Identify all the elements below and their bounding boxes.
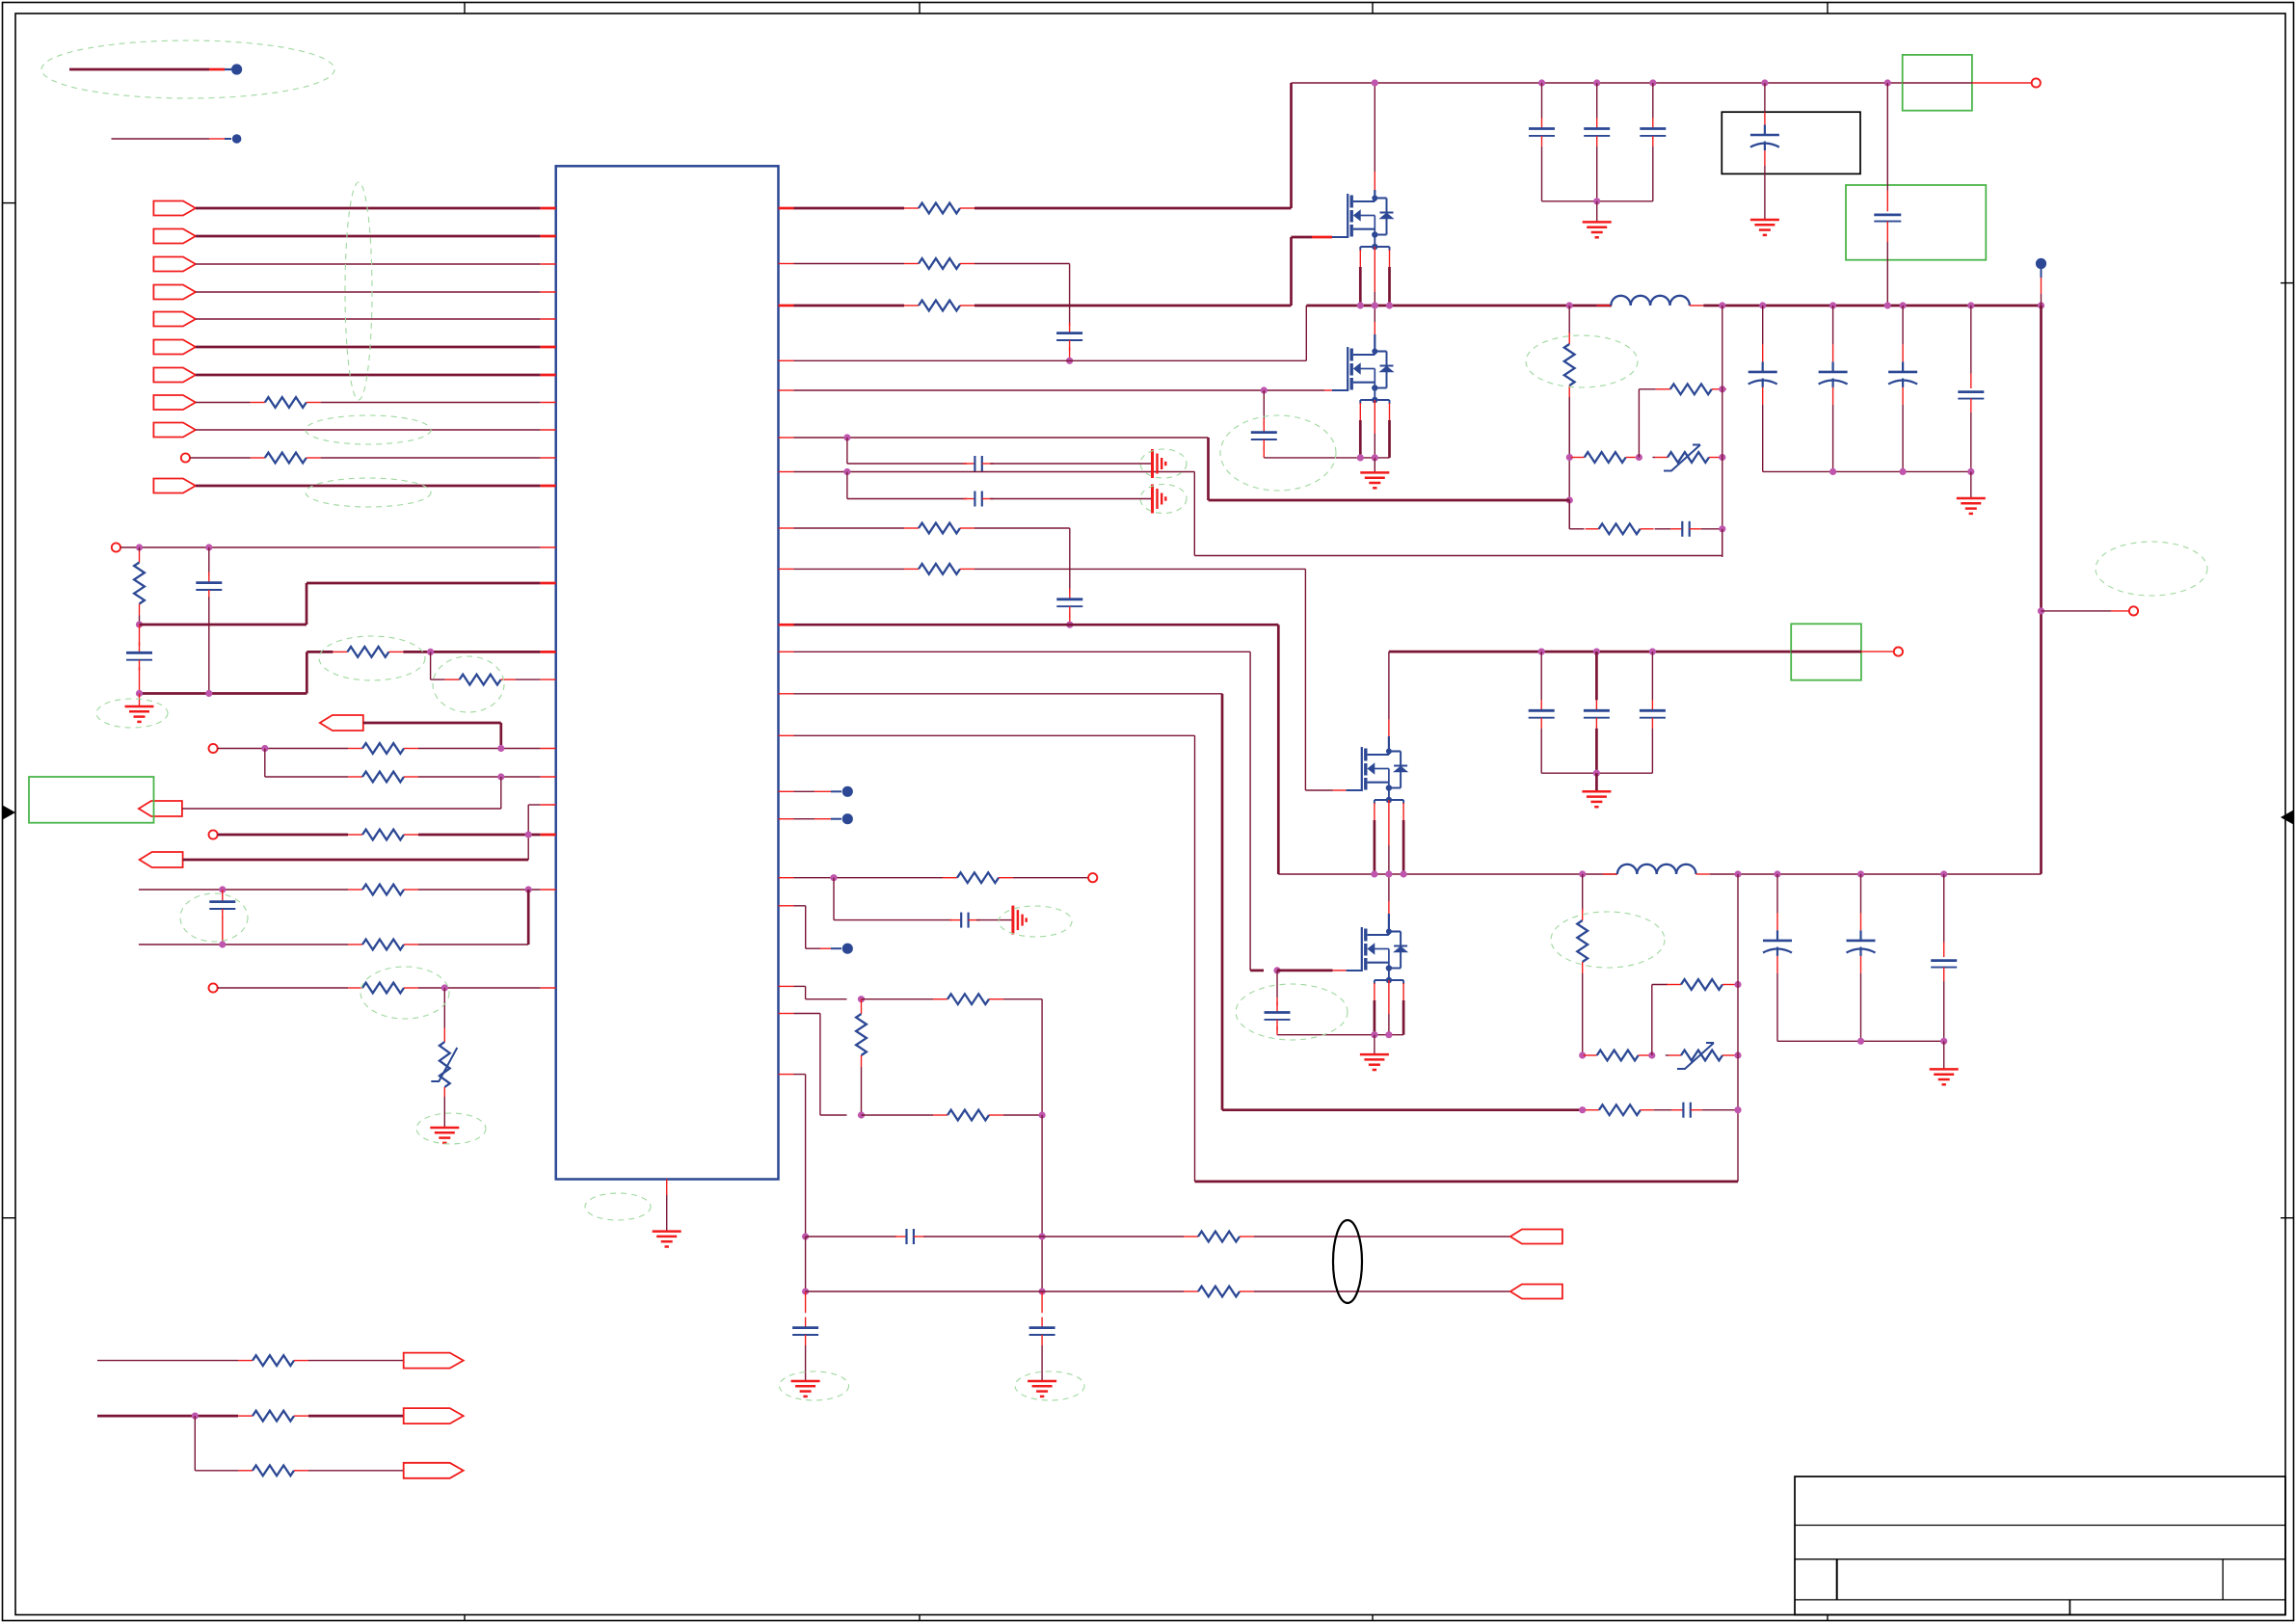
dashed ellipse around GND12 bbox=[1015, 1371, 1084, 1400]
wire resistor R14 to IC pin bbox=[516, 678, 541, 680]
wire right bus x2117.5 bbox=[2040, 306, 2042, 874]
junction node B2 bbox=[497, 745, 504, 752]
wire x835.6 leg down bbox=[805, 1237, 807, 1291]
dashed ellipse around R20 bbox=[360, 967, 449, 1019]
port P5 bbox=[153, 312, 196, 327]
wire lower row 719.5 bbox=[140, 692, 307, 695]
resistor R31 (FB2 top, vertical) bbox=[1582, 874, 1584, 911]
wire node K2 row to resistor R37 bbox=[862, 1114, 934, 1116]
wire port P11 to IC pin bbox=[196, 485, 541, 488]
port P13 (arrow) bbox=[320, 715, 363, 731]
wire input bank return bus 2 bbox=[1541, 772, 1652, 774]
wire Q2 drain to SW rail bbox=[1374, 306, 1375, 322]
wire row 548.8: corner from x1628 bbox=[1568, 500, 1570, 529]
port P3 bbox=[153, 257, 196, 272]
dashed ellipse around R31 bbox=[1551, 912, 1665, 968]
resistor R21 bbox=[904, 207, 919, 209]
ground GND9 bbox=[1943, 1041, 1945, 1069]
wire row 866 bbox=[218, 834, 348, 837]
wire row 1025 bbox=[218, 987, 348, 989]
legend net dot 1 bbox=[231, 64, 242, 74]
resistor R28 bbox=[904, 527, 919, 529]
junction node A3 bbox=[136, 621, 143, 627]
port P9 bbox=[153, 423, 196, 438]
ground GND1 bbox=[139, 694, 141, 707]
port P12 (circle pin) bbox=[112, 543, 120, 551]
junction node E2 bbox=[1566, 496, 1573, 503]
green box GB2 bbox=[1846, 185, 1986, 260]
junction node D5 bbox=[1593, 198, 1600, 204]
wire resistor R16 to IC pin bbox=[418, 776, 541, 778]
wire input bank return bus bbox=[1542, 200, 1653, 202]
wire IC ground pin bbox=[666, 1180, 668, 1196]
capacitor C17 bbox=[1596, 83, 1598, 119]
capacitor C14 (boot1) bbox=[1069, 323, 1071, 333]
junction node A5 bbox=[205, 690, 212, 697]
wire Q3 drain to VIN2 rail bbox=[1388, 652, 1390, 719]
ground GND6 bbox=[1970, 471, 1972, 498]
dashed ellipse near P20 bbox=[2096, 542, 2207, 596]
wire port P5 to IC pin bbox=[196, 318, 541, 320]
wire ISEN row 517.5 (cap + side ground) bbox=[846, 472, 848, 499]
wire port P10 to IC bbox=[190, 457, 251, 459]
wire IC pin 835 corner bbox=[528, 804, 541, 806]
resistor R30 bbox=[943, 877, 957, 879]
resistor R32 bbox=[1584, 1054, 1597, 1056]
junction node K5 bbox=[802, 1288, 809, 1294]
wire IC pin 1051.5 to row 1157 bbox=[779, 1013, 794, 1015]
capacitor C31 (out2, polarized) bbox=[1776, 874, 1778, 913]
green box GB1 bbox=[1903, 55, 1972, 111]
frame tick marks top edge bbox=[464, 3, 466, 14]
junction node A2 bbox=[205, 544, 212, 550]
net stub ND4 (blue dot) bbox=[779, 905, 794, 907]
wire SW1 rail bbox=[1306, 305, 1612, 307]
wire row 980 from left bbox=[139, 944, 348, 945]
capacitor C33 (out2) bbox=[1943, 874, 1945, 943]
capacitor C29 bbox=[1595, 652, 1598, 700]
junction node J5 bbox=[1579, 1106, 1586, 1113]
junction node E6 bbox=[1719, 525, 1725, 532]
port P6 bbox=[153, 340, 196, 355]
wire IC pin LG2 row 676.3 bbox=[779, 651, 794, 652]
resistor R18 bbox=[348, 889, 362, 891]
capacitor C12a (on x216.8 leg) bbox=[208, 547, 210, 575]
frame centre arrow left bbox=[3, 806, 15, 819]
wire R41 to flag bbox=[308, 1415, 404, 1418]
wire port P1 to IC pin bbox=[196, 207, 541, 210]
dashed ellipse around R13 bbox=[319, 636, 425, 680]
port P7 bbox=[153, 368, 196, 383]
wire port P8 to resistor bbox=[196, 402, 251, 404]
port P15 (arrow) bbox=[139, 801, 182, 816]
capacitor C15 (Q2 gate-source) bbox=[1263, 390, 1265, 418]
dashed ellipse around R14 bbox=[433, 656, 504, 712]
wire IC pin BOOT2 to resistor bbox=[779, 527, 794, 529]
wire port P7 to IC pin bbox=[196, 374, 541, 377]
wire IC pin 1023.4 to comp row bbox=[779, 985, 794, 987]
legend wire 1 bbox=[69, 68, 209, 71]
capacitor C12b (on x144.5 leg) bbox=[139, 625, 141, 646]
junction node K4 bbox=[802, 1233, 809, 1239]
transistor Q2 (low-side) bbox=[1347, 347, 1348, 391]
wire Q2 return rail bbox=[1361, 457, 1390, 459]
wire x1628 FB1 divider leg bbox=[1568, 397, 1570, 529]
wire S1 to flag port bbox=[1254, 1236, 1510, 1237]
resistor R38 bbox=[1184, 1236, 1198, 1237]
resistor R40 bbox=[238, 1360, 253, 1362]
wire R27 to capacitor C24 bbox=[1655, 528, 1671, 530]
side ground SG1 bbox=[1151, 449, 1154, 478]
wire node F1 to port bbox=[2042, 610, 2112, 612]
wire x1803 FB2 right leg bbox=[1737, 874, 1739, 1110]
resistor R33 bbox=[1667, 984, 1681, 986]
junction nodes on VIN2 rail bbox=[1538, 649, 1545, 655]
wire VIN1 rail bbox=[1292, 82, 1904, 84]
port P16 (circle pin) bbox=[209, 830, 218, 838]
resistor R13 bbox=[333, 651, 347, 652]
resistor R23 bbox=[904, 305, 919, 306]
wire R34 to capacitor C34 bbox=[1654, 1109, 1672, 1111]
ground GND11 bbox=[791, 1380, 820, 1383]
net stub ND3 (blue dot) bbox=[779, 818, 794, 820]
wire resistor R17 to IC pin bbox=[418, 834, 541, 837]
junction node A6 bbox=[427, 649, 434, 655]
net stub ND2 (blue dot) bbox=[779, 790, 794, 792]
flag port P26 bbox=[404, 1408, 464, 1423]
inductor L1 bbox=[1596, 305, 1611, 306]
capacitor C32 (out2, polarized) bbox=[1860, 874, 1862, 913]
capacitor C16 bbox=[1541, 83, 1543, 119]
resistor R8 bbox=[251, 402, 265, 404]
junction nodes on SW1/VOUT1 rail bbox=[1357, 302, 1364, 308]
wire Q4 source split to return rail bbox=[1374, 983, 1375, 1000]
resistor R36 (vertical) bbox=[861, 999, 863, 1002]
wire corner x1253.5 to node E2 bbox=[1207, 438, 1210, 500]
frame tick marks right edge bbox=[2281, 282, 2294, 284]
junction node K7 bbox=[1039, 1288, 1046, 1294]
wire IC pin HG1 to resistor bbox=[779, 305, 794, 307]
wire resistor R8 to IC pin bbox=[321, 402, 541, 404]
junction node B1 bbox=[261, 745, 268, 752]
wire Q3 source split to SW2 rail bbox=[1374, 803, 1375, 820]
capacitor C18 bbox=[1652, 83, 1654, 119]
junction node J3 bbox=[1734, 1051, 1741, 1058]
resistor R27 bbox=[1586, 528, 1599, 530]
wire resistor R20 to IC pin bbox=[418, 987, 541, 989]
resistor R35 bbox=[933, 998, 948, 1000]
junction node B5 bbox=[219, 886, 226, 892]
wire x1700 riser bbox=[1638, 389, 1640, 458]
wire resistor R10 to IC pin bbox=[321, 457, 541, 459]
junction node E7 bbox=[843, 468, 850, 475]
wire Q4 return rail bbox=[1277, 1034, 1403, 1036]
junction node E4 bbox=[1719, 454, 1725, 461]
junction node A1 bbox=[136, 544, 143, 550]
dashed ellipse around C27 bbox=[1236, 984, 1348, 1040]
resistor R20 bbox=[348, 987, 362, 989]
wire VOUT2 rail bbox=[1710, 873, 2042, 875]
junction node D3 bbox=[1357, 454, 1364, 461]
capacitor C35 bbox=[805, 1291, 807, 1313]
resistor R22 bbox=[904, 263, 919, 265]
wire resistor R21 to VIN riser bbox=[974, 207, 1292, 210]
port P17 (arrow) bbox=[140, 852, 183, 867]
junction node B6 bbox=[525, 886, 532, 892]
wire R35 to corner x1081.1 bbox=[1003, 998, 1042, 1000]
junction node D4 bbox=[1372, 454, 1378, 461]
wire IC pin VIN to resistor bbox=[779, 207, 794, 210]
capacitor C26 bbox=[949, 919, 961, 921]
wire sense row S1 bbox=[806, 1236, 896, 1237]
dashed ellipse around SG3 bbox=[999, 906, 1072, 937]
transistor Q1 (high-side) bbox=[1347, 194, 1348, 238]
ground GND7 bbox=[1374, 1035, 1375, 1054]
wire IC pin 1114.6 to sense leg bbox=[779, 1074, 794, 1076]
junction node B3 bbox=[497, 773, 504, 780]
wire port P15 to node B3 bbox=[182, 808, 501, 810]
resistor R19 bbox=[348, 944, 362, 945]
capacitor C24 bbox=[1670, 528, 1682, 530]
junction node E3 bbox=[1636, 454, 1642, 461]
wire row 676.4 to resistor bbox=[307, 651, 333, 653]
junction node D2 bbox=[1261, 386, 1268, 393]
wire resistor R30 to port bbox=[1013, 877, 1088, 879]
dashed ellipse around SG1 bbox=[1140, 449, 1187, 478]
wire Q2 source split to return rail bbox=[1359, 403, 1361, 420]
port P4 bbox=[153, 285, 196, 300]
junction node H4 bbox=[1593, 770, 1600, 777]
junction node K6 bbox=[1039, 1233, 1046, 1239]
controller IC U1 bbox=[556, 166, 779, 1179]
side ground SG3 bbox=[1011, 906, 1014, 935]
wire port P13 to riser bbox=[363, 722, 501, 725]
wire IC pin VSEN2 row 763.3 bbox=[779, 734, 794, 736]
junction node H3 (Q4 gate) bbox=[1273, 967, 1280, 973]
wire VIN2 rail into GB3 and port bbox=[1791, 651, 1861, 653]
black box BB1 bbox=[1722, 112, 1860, 173]
frame centre arrow right bbox=[2282, 811, 2294, 824]
wire VIN1 rail into GB1 and port bbox=[1903, 82, 1972, 84]
dashed ellipse left of GND10 bbox=[585, 1193, 651, 1220]
wire IC pin SW1 row bbox=[779, 359, 794, 361]
inductor L2 bbox=[1603, 873, 1617, 875]
junction node J4 bbox=[1734, 981, 1741, 988]
wire FB1 bottom row to riser x1239.3 bbox=[1194, 555, 1722, 557]
wire C34 to node J6 bbox=[1702, 1109, 1738, 1111]
dashed ellipse around GND2 bbox=[416, 1113, 486, 1144]
port P1 bbox=[153, 201, 196, 216]
wire row 474.5 left segment + resistor R25 bbox=[1571, 457, 1585, 459]
wire row 1469.1 bbox=[97, 1415, 238, 1418]
resistor R12 (vertical) bbox=[139, 547, 141, 551]
junction node F1 bbox=[2038, 607, 2044, 614]
rheostat RV3 bbox=[1669, 1054, 1681, 1056]
capacitor C22 (out, polarized) bbox=[1902, 306, 1904, 344]
cable loop marker bbox=[1333, 1220, 1362, 1303]
wire ISEN row 481 (cap + side ground) bbox=[846, 438, 848, 464]
wire Q1 source split to SW rail bbox=[1359, 250, 1361, 267]
green box GB4 bbox=[29, 777, 154, 823]
dashed ellipse around C15 bbox=[1220, 415, 1336, 491]
wire sense row S2 bbox=[806, 1290, 1184, 1292]
wire riser x318.3 to row 676.4 bbox=[306, 652, 308, 693]
wire IC pin 454 row to corner x1253.5 bbox=[779, 437, 794, 439]
dashed ellipse around C13 bbox=[180, 893, 248, 942]
wire row 776.5 bbox=[218, 748, 348, 750]
wire x1786.8 FB1 right leg bbox=[1722, 306, 1723, 557]
wire row 1411.6 bbox=[97, 1360, 238, 1362]
junction node D1 bbox=[1066, 358, 1073, 364]
capacitor C30 bbox=[1651, 652, 1653, 700]
junction nodes on return bus 2 bbox=[1857, 1038, 1864, 1045]
ground GND2 bbox=[430, 1127, 459, 1130]
wire IC pin LG1 to gate2 bbox=[779, 389, 794, 391]
junction node K1 bbox=[858, 996, 865, 1002]
wire x1713.8 riser bbox=[1651, 985, 1653, 1056]
wire riser x1239.3 to IC pin FB1 bbox=[1193, 472, 1195, 556]
wire port P3 to IC pin bbox=[196, 263, 541, 265]
wire C24 to node E6 bbox=[1701, 528, 1722, 530]
wire resistor R15 to IC pin bbox=[418, 748, 541, 750]
wire HG1 riser and gate lead bbox=[1290, 237, 1293, 306]
capacitor C36 bbox=[1041, 1291, 1043, 1313]
junction node H2 bbox=[1385, 1031, 1392, 1038]
junction node G1 bbox=[830, 874, 837, 881]
port P22 (circle pin VIN2) bbox=[1894, 648, 1903, 656]
capacitor C23 (out) bbox=[1970, 306, 1972, 374]
rheostat RV2 bbox=[1655, 457, 1668, 459]
resistor R15 bbox=[348, 748, 362, 750]
junction node B8 bbox=[441, 984, 448, 991]
port P18 (circle pin) bbox=[209, 983, 218, 992]
legend net dot 2 bbox=[232, 134, 242, 144]
port P11 bbox=[153, 479, 196, 493]
wire R37 to node K3 bbox=[1003, 1114, 1042, 1116]
dashed ellipse row11 bbox=[306, 478, 431, 507]
flag port P23 bbox=[1510, 1230, 1562, 1244]
junction nodes on return bus 1 bbox=[1829, 468, 1836, 475]
wire port P9 to IC pin bbox=[196, 429, 541, 431]
wire node G1 down to cap row 954.6 bbox=[833, 878, 835, 920]
varistor RV1 (vertical) bbox=[443, 988, 445, 1028]
wire port P12 to IC pin bbox=[120, 546, 541, 548]
dashed ellipse around SG2 bbox=[1140, 485, 1187, 514]
junction nodes on SW2/VOUT2 rail bbox=[1371, 870, 1377, 877]
wire VOUT1 rail bbox=[1703, 305, 2041, 307]
ground GND8 bbox=[1595, 773, 1598, 791]
wire node A6 down to row 705.1 bbox=[430, 652, 432, 679]
junction node B4 bbox=[525, 831, 532, 838]
port P8 bbox=[153, 395, 196, 410]
dashed ellipse around GND1 bbox=[96, 699, 168, 728]
wire node L1 down to row 1525.8 bbox=[194, 1416, 196, 1471]
wire S2 to flag port bbox=[1254, 1290, 1510, 1292]
title block bbox=[1795, 1477, 2285, 1615]
resistor R42 bbox=[238, 1470, 253, 1472]
side ground SG2 bbox=[1151, 485, 1154, 514]
wire resistor R13 to IC pin bbox=[403, 651, 540, 653]
wire R42 to flag bbox=[308, 1470, 404, 1472]
junction node H1 bbox=[1371, 1031, 1377, 1038]
ground GND5 bbox=[1750, 219, 1779, 222]
capacitor C20 (in GB2) bbox=[1886, 83, 1888, 191]
junction node J6 bbox=[1734, 1106, 1741, 1113]
wire resistor R23 to gate riser bbox=[974, 305, 1292, 307]
wire node K1 row to resistor R35 bbox=[862, 998, 934, 1000]
resistor R14 bbox=[445, 678, 460, 680]
wire resistor R19 corner to riser bbox=[418, 944, 528, 945]
wire port P4 to IC pin bbox=[196, 291, 541, 293]
net stub ND1 (blue dot) bbox=[2036, 258, 2046, 269]
capacitor C28 bbox=[1540, 652, 1542, 700]
resistor R16 bbox=[348, 776, 362, 778]
capacitor C19 (bulk, in BB1) bbox=[1764, 83, 1766, 113]
frame tick marks bottom edge bbox=[464, 1615, 466, 1621]
wire output bank return bus 2 bbox=[1777, 1040, 1944, 1042]
flag port P24 bbox=[1510, 1285, 1562, 1299]
wire R40 to flag bbox=[308, 1360, 404, 1362]
capacitor C25 (boot2) bbox=[1069, 589, 1071, 599]
ground GND10 bbox=[653, 1230, 681, 1233]
wire port P17 to node B4 bbox=[183, 859, 529, 862]
wire IC pin SW2 row 648.2 bbox=[779, 624, 794, 626]
junction node E1 bbox=[1566, 454, 1573, 461]
wire IC pin row 910.7 to resistor bbox=[779, 877, 794, 879]
wire node B1 down to row 806 bbox=[264, 749, 266, 778]
wire resistor R28 to boot2 corner bbox=[974, 527, 1070, 529]
wire IC pin HG2 to resistor bbox=[779, 568, 794, 570]
resistor R26 bbox=[1656, 388, 1670, 390]
port P21 (circle pin) bbox=[1088, 873, 1097, 882]
wire IC pin BOOT1 to resistor bbox=[779, 263, 794, 265]
green box GB3 bbox=[1791, 624, 1861, 679]
dashed ellipse around R24 bbox=[1526, 335, 1638, 387]
junction node L1 bbox=[192, 1413, 199, 1420]
junction node E8 bbox=[843, 434, 850, 440]
resistor R37 bbox=[933, 1114, 948, 1116]
resistor R41 bbox=[238, 1415, 253, 1417]
dashed ellipse row9 bbox=[306, 415, 431, 444]
capacitor C21 (out, polarized) bbox=[1832, 306, 1834, 344]
wire riser x318 to IC pin 605 bbox=[306, 583, 308, 625]
junction node J2 bbox=[1648, 1051, 1655, 1058]
legend dashed ellipse bbox=[41, 40, 334, 98]
capacitor C27 (Q4 gate-source) bbox=[1276, 971, 1278, 998]
resistor R10 bbox=[251, 457, 265, 459]
wire resistor R26 to node E5 bbox=[1722, 388, 1726, 390]
ground GND3 bbox=[1374, 458, 1375, 473]
dashed ellipse around GND11 bbox=[780, 1371, 849, 1400]
resistor R34 bbox=[1586, 1109, 1599, 1111]
transistor Q4 (low-side) bbox=[1361, 927, 1363, 971]
flag port P27 bbox=[404, 1463, 464, 1478]
port P19 (circle pin VIN) bbox=[2032, 78, 2041, 87]
junction node K3 bbox=[1039, 1111, 1046, 1118]
legend wire 2 bbox=[112, 138, 210, 140]
wire IC pin FB2-upper row 719.8 bbox=[779, 693, 794, 695]
transistor Q3 (high-side) bbox=[1361, 747, 1363, 791]
junction nodes on VIN1 rail bbox=[1372, 79, 1378, 86]
capacitor C34 bbox=[1671, 1109, 1683, 1111]
capacitor C21a (out, polarized) bbox=[1762, 306, 1764, 344]
wire SW2 rail bbox=[1278, 873, 1617, 875]
ground GND4 bbox=[1596, 201, 1598, 223]
junction node J1 bbox=[1579, 1051, 1586, 1058]
junction node B7 bbox=[219, 941, 226, 947]
wire port P2 to IC pin bbox=[196, 235, 541, 238]
wire resistor R18 to IC pin bbox=[418, 889, 541, 891]
